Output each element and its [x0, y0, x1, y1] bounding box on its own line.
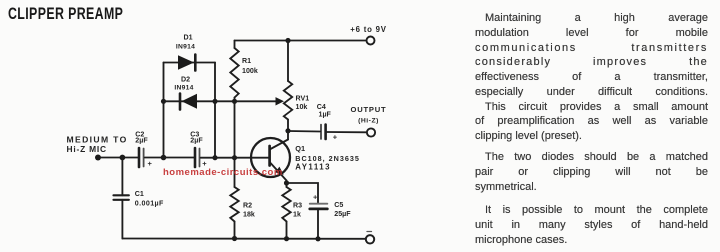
node C1 branch dot — [120, 155, 126, 161]
terminal output circle — [367, 128, 375, 136]
resistor R3 — [282, 187, 290, 222]
wire D2 row / wiper line — [164, 100, 276, 102]
wire D1 row — [164, 62, 216, 64]
node left-vertical/D2 row — [161, 99, 166, 104]
node R1/wiper-row junction — [232, 99, 237, 104]
description text column — [475, 11, 708, 248]
wire diode box left vertical — [163, 63, 165, 158]
title CLIPPER PREAMP — [8, 5, 123, 24]
wire diode box right vertical — [214, 63, 216, 158]
wire R3 bottom to rail — [286, 222, 288, 239]
svg-text:OUTPUT: OUTPUT — [350, 105, 386, 114]
wire R1 bottom to base row to R2 — [234, 98, 236, 188]
svg-text:1k: 1k — [293, 211, 301, 219]
wire output row right — [327, 131, 367, 133]
node right-vertical/base row — [212, 155, 217, 160]
wiper arrowhead of RV1 — [276, 97, 285, 105]
svg-text:D2: D2 — [181, 76, 190, 84]
svg-text:C1: C1 — [135, 190, 144, 198]
svg-text:10k: 10k — [296, 103, 308, 111]
svg-text:2µF: 2µF — [135, 137, 148, 145]
wire bottom rail — [122, 238, 365, 240]
svg-text:1µF: 1µF — [319, 111, 332, 119]
resistor R1 — [230, 48, 238, 98]
node C5/rail junction — [315, 236, 320, 241]
svg-text:Q1: Q1 — [295, 144, 305, 153]
svg-text:AY1113: AY1113 — [295, 162, 331, 171]
node top-rail/RV1 junction — [285, 38, 290, 43]
svg-text:100k: 100k — [242, 67, 258, 75]
node right-vertical/D2 row — [212, 99, 217, 104]
wire emitter column — [286, 181, 288, 188]
svg-text:C5: C5 — [334, 201, 343, 209]
capacitor C4 — [320, 125, 322, 140]
svg-text:25µF: 25µF — [334, 210, 351, 218]
wire base row — [201, 157, 269, 159]
svg-text:+: + — [148, 159, 153, 168]
potentiometer RV1 — [284, 81, 292, 120]
svg-text:RV1: RV1 — [296, 94, 310, 102]
node input terminal dot — [95, 155, 101, 161]
svg-text:R3: R3 — [293, 202, 302, 210]
capacitor C2 — [138, 148, 141, 167]
wire top rail — [235, 40, 367, 42]
resistor R2 — [230, 187, 238, 222]
diode D2 — [179, 94, 182, 110]
svg-text:0.001µF: 0.001µF — [135, 200, 164, 208]
node emitter/C5 branch — [284, 180, 289, 185]
svg-text:Hi-Z MIC: Hi-Z MIC — [67, 144, 107, 154]
diode D1 — [178, 55, 194, 69]
svg-text:R2: R2 — [243, 202, 252, 210]
node R2/rail junction — [232, 236, 237, 241]
terminal supply circle — [367, 37, 375, 45]
transistor Q1 — [251, 138, 290, 177]
wire C2 to C3 — [145, 157, 194, 159]
wire R1 column top stub — [234, 41, 236, 49]
wire R2 bottom to rail — [234, 222, 236, 239]
capacitor C5 — [310, 203, 328, 205]
svg-text:2µF: 2µF — [190, 137, 203, 145]
terminal ground circle — [366, 235, 374, 243]
node C2/C3 junction — [161, 155, 167, 161]
capacitor C1 — [121, 158, 123, 196]
node collector junction — [285, 128, 290, 133]
wire input lead — [98, 157, 138, 159]
wire RV1 column top — [287, 41, 289, 82]
svg-text:D1: D1 — [183, 34, 192, 42]
svg-text:+6 to 9V: +6 to 9V — [350, 25, 387, 34]
node base-row/bias junction — [232, 155, 237, 160]
svg-text:IN914: IN914 — [174, 85, 193, 92]
capacitor C3 — [194, 148, 197, 167]
svg-text:+: + — [313, 193, 318, 202]
node R3/rail junction — [284, 236, 289, 241]
svg-text:homemade-circuits.com: homemade-circuits.com — [163, 167, 283, 178]
wire C5 branch — [287, 183, 319, 203]
wire output row left — [288, 130, 320, 133]
svg-text:IN914: IN914 — [176, 43, 195, 50]
wire RV1 bottom to collector node — [287, 120, 289, 131]
svg-text:18k: 18k — [243, 211, 255, 219]
svg-text:(Hi-Z): (Hi-Z) — [358, 118, 379, 125]
ground tick above terminal — [367, 231, 372, 233]
svg-text:+: + — [333, 132, 338, 141]
svg-text:R1: R1 — [242, 57, 251, 65]
